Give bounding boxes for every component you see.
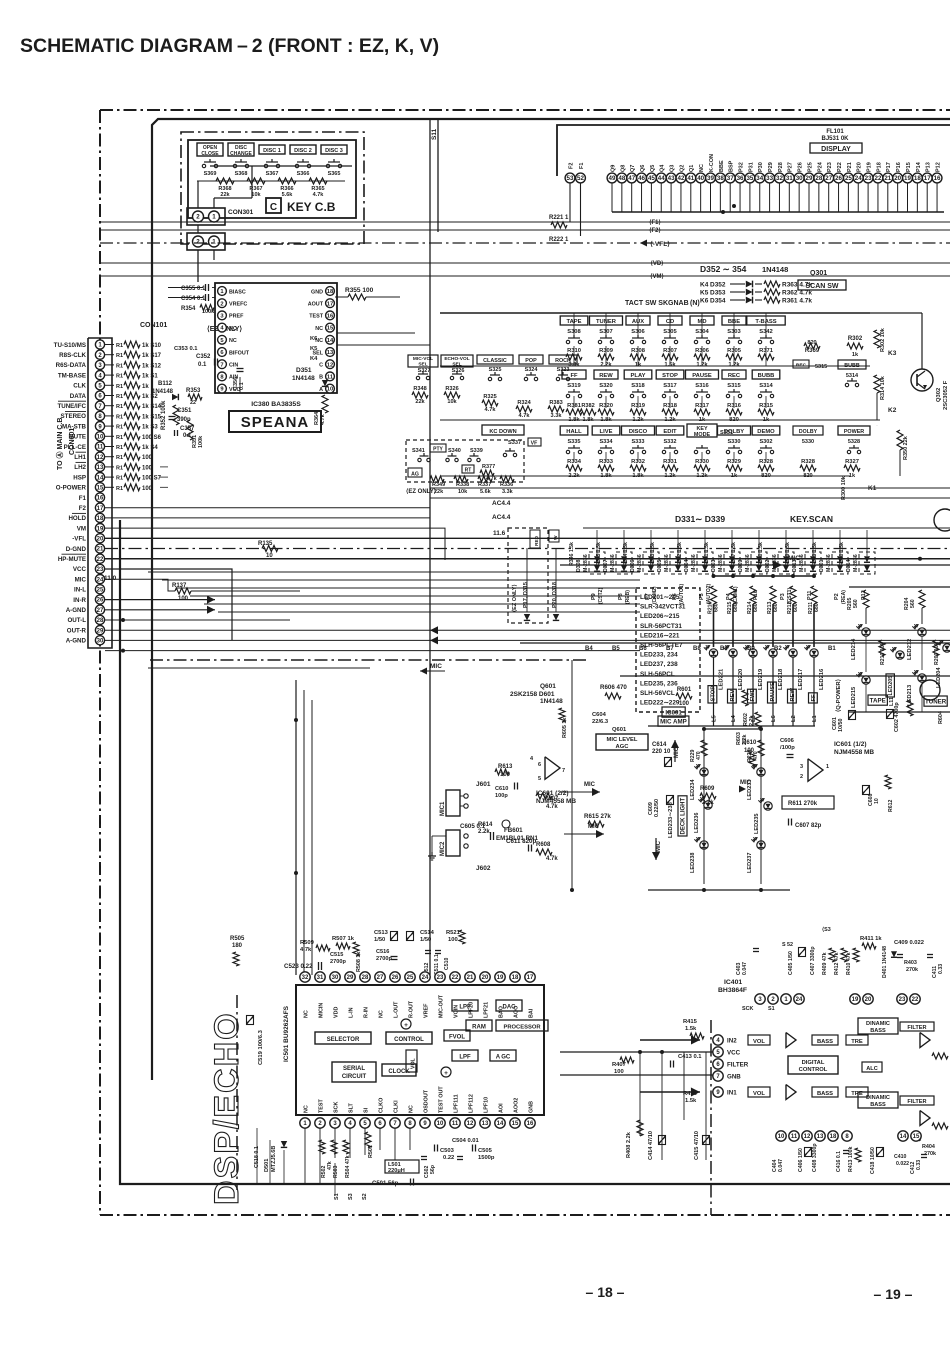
display pin 31 P27 [784,173,794,183]
CON101 pin 7 TUNE/IFC [95,401,104,410]
svg-text:FL101: FL101 [826,129,844,135]
IC501 pin 19 BAO [495,972,505,982]
svg-text:30: 30 [97,638,104,644]
svg-text:LH1: LH1 [74,454,86,461]
svg-text:17: 17 [97,506,104,512]
svg-text:S368: S368 [235,171,248,177]
switch S323 ROCK [549,355,577,364]
svg-text:P13: P13 [926,162,932,172]
switch S314 BUBB [752,370,780,379]
display pin 44 Q4 [656,173,666,183]
switch S305 CD [658,316,682,325]
display pin 39 K-CON [706,173,716,183]
wire pin30 A-GND [105,650,640,652]
svg-text:5: 5 [538,776,541,782]
svg-text:GNB: GNB [529,1101,535,1113]
svg-text:12: 12 [97,455,104,461]
svg-text:C405 1/50: C405 1/50 [788,951,794,975]
svg-text:CHANGE: CHANGE [230,151,252,157]
svg-text:27: 27 [825,175,832,182]
svg-text:1k S17: 1k S17 [142,353,162,359]
svg-text:100: 100 [142,465,153,471]
svg-text:19: 19 [97,526,104,532]
svg-text:R507 1k: R507 1k [332,936,355,942]
svg-text:R361 4.7k: R361 4.7k [782,298,812,305]
CLOCK box [382,1064,416,1076]
svg-text:M-2836: M-2836 [583,554,589,572]
svg-text:10: 10 [437,1121,444,1127]
svg-text:R1: R1 [116,465,123,471]
BASS box L [812,1035,838,1045]
svg-text:R1: R1 [116,384,123,390]
TRE box L [846,1035,868,1045]
display pin 46 Q6 [637,173,647,183]
svg-text:2: 2 [800,774,803,780]
svg-text:MIC-OUT: MIC-OUT [439,994,445,1018]
LED LED221 [709,649,717,657]
svg-text:B5: B5 [612,646,620,652]
IC401 pin 4 IN2 [713,1035,723,1045]
amp triangle L [786,1033,796,1048]
svg-text:P20: P20 [857,162,863,172]
svg-text:11.0: 11.0 [104,575,117,582]
svg-text:39: 39 [707,175,714,182]
matrix vertical rails [573,346,575,366]
wire pin19 VM [105,537,950,539]
switch S368 DISC CHANGE [228,143,254,156]
svg-text:17: 17 [527,975,534,981]
svg-text:C415 47/10: C415 47/10 [694,1131,700,1160]
right rail wires [870,312,922,314]
svg-text:D305: D305 [657,559,663,572]
FVOL box [444,1030,470,1041]
svg-text:10k: 10k [447,399,457,405]
svg-text:1k S12: 1k S12 [142,363,162,369]
resistor R366 5.6k [278,178,296,184]
svg-text:LED206∼215: LED206∼215 [640,613,680,620]
svg-text:R1: R1 [116,394,123,400]
wire pin21 D-GND [105,558,950,560]
svg-text:C514: C514 [420,930,435,936]
svg-text:TEST: TEST [309,314,323,320]
IC501 pin 28 R-IN [360,972,370,982]
svg-text:13: 13 [327,350,334,356]
svg-text:IC501 BU9262AFS: IC501 BU9262AFS [283,1005,290,1062]
switch S366 DISC 2 [290,145,316,154]
LED234 [700,768,708,776]
svg-text:26: 26 [835,175,842,182]
IC501 pin 9 OSDOUT [420,1118,430,1128]
svg-text:1k: 1k [852,352,859,358]
svg-text:HALL: HALL [566,429,582,435]
svg-text:HOLD: HOLD [68,515,86,522]
svg-text:22: 22 [452,975,459,981]
svg-text:1.8k: 1.8k [583,417,595,423]
IC380 pin 8 AIN [218,372,227,381]
switch S317 STOP [656,370,684,379]
svg-text:R340 1.5k: R340 1.5k [758,542,764,566]
svg-text:B4: B4 [585,646,593,652]
svg-text:M-2836: M-2836 [853,554,859,572]
resistor R351 100k vertical [187,420,193,440]
svg-text:OUT-L: OUT-L [67,617,86,624]
svg-text:27: 27 [97,608,104,614]
resistor R115 1k S2 [105,395,114,397]
svg-text:C406 1/50: C406 1/50 [798,1148,804,1172]
CON101 pin 19 VM [95,524,104,533]
svg-text:TU-S10/MS: TU-S10/MS [54,342,86,349]
CON101 pin 13 LH2 [95,462,104,471]
svg-text:22: 22 [190,400,196,406]
svg-text:36: 36 [737,175,744,182]
switch S342 T-BASS [747,316,785,325]
svg-text:0.022: 0.022 [896,1161,909,1167]
svg-text:R611 270k: R611 270k [788,801,818,807]
wires IC401 verticals [639,1052,641,1136]
svg-text:BASS: BASS [817,1091,833,1097]
svg-text:LED234: LED234 [690,779,696,800]
IC501 pin 1 NC [300,1118,310,1128]
svg-text:SCK: SCK [334,1102,340,1113]
LED LED220 [729,649,737,657]
LED LED217 [789,649,797,657]
svg-text:100: 100 [614,1069,624,1075]
IC401 pins 19 20 [850,994,860,1004]
svg-text:C: C [319,363,323,369]
svg-text:R1: R1 [116,374,123,380]
IC501 pin 26 L-OUT [390,972,400,982]
svg-text:BIFOUT: BIFOUT [229,350,250,356]
svg-text:R504 47k: R504 47k [345,1155,351,1178]
svg-text:5.6k: 5.6k [480,489,492,495]
svg-text:820: 820 [807,340,816,346]
svg-text:S319: S319 [567,383,581,389]
PROCESSOR box [496,1020,548,1031]
svg-text:C516: C516 [376,949,389,955]
svg-text:R604: R604 [938,711,944,724]
svg-text:SEL: SEL [418,362,427,368]
svg-text:52: 52 [577,175,584,182]
svg-text:IC601: IC601 [665,709,682,716]
svg-text:REC: REC [728,373,741,379]
svg-text:100k: 100k [202,309,215,315]
svg-text:R1: R1 [116,435,123,441]
svg-text:LED222∼229: LED222∼229 [640,700,680,707]
svg-text:LED205: LED205 [888,676,894,696]
svg-text:1N4148: 1N4148 [540,698,563,705]
svg-text:Q2: Q2 [679,165,685,172]
wire VM line [100,275,950,277]
svg-text:C604: C604 [592,712,607,718]
svg-text:25: 25 [845,175,852,182]
svg-text:TUNE/IFC: TUNE/IFC [57,403,86,410]
display pin 16 P12 [932,173,942,183]
CON101 pin 11 PLL-CE [95,442,104,451]
resistor R612 vertical [885,775,891,789]
IC380 pin 14 NC [326,335,335,344]
svg-text:820: 820 [803,473,812,479]
svg-text:R6S-DATA: R6S-DATA [56,362,87,369]
FILTER box bottom [900,1096,934,1105]
svg-text:J602: J602 [476,865,491,872]
svg-text:12: 12 [804,1134,811,1140]
svg-text:DISC 3: DISC 3 [325,148,343,154]
svg-text:16: 16 [934,175,941,182]
svg-text:L-IN: L-IN [349,1007,355,1018]
svg-text:BIASC: BIASC [229,289,246,295]
transistor Q302 [911,369,933,391]
svg-text:R350 22k: R350 22k [903,435,909,460]
IC501 pin 30 VDD [330,972,340,982]
display pin 45 Q5 [647,173,657,183]
svg-text:R339 1.5k: R339 1.5k [812,542,818,566]
svg-text:⟨VD⟩: ⟨VD⟩ [650,260,663,267]
svg-text:KEY C.B: KEY C.B [287,200,336,214]
CON101 pin 27 A-GND [95,605,104,614]
svg-text:35: 35 [746,175,753,182]
CON101 pin 15 O-POWER [95,483,104,492]
svg-text:R325: R325 [483,394,496,400]
IC380 pin 16 TEST [326,311,335,320]
SPEANA boxed label [229,411,321,432]
switch S330 DOLBY [793,426,823,435]
switch S330 DOLBY [718,426,751,435]
svg-text:220μH: 220μH [388,1168,405,1174]
switch KC DOWN S337 [482,425,524,435]
led group rails [849,586,950,588]
boxed label PAUSE [768,682,777,703]
svg-text:5330: 5330 [802,439,814,445]
svg-text:R505: R505 [230,936,245,942]
KEY C.B outer dash-dot box [181,132,364,244]
deck light feed [761,728,838,730]
resistor R508 1k vertical [353,942,359,956]
svg-text:18: 18 [512,975,519,981]
svg-text:2700p: 2700p [330,959,346,965]
svg-text:K2: K2 [888,407,897,414]
IC501 pin 23 MIC-OUT [435,972,445,982]
C518 leads [256,1128,258,1184]
CON101 pin 25 IN-L [95,585,104,594]
LED238 [700,841,708,849]
svg-text:C519 100/6.3: C519 100/6.3 [258,1029,264,1065]
svg-text:R377: R377 [482,464,495,470]
display pin 49 Q9 [607,173,617,183]
LED rail top [713,575,815,577]
svg-text:SLH-56PCTE7: SLH-56PCTE7 [640,642,683,649]
svg-text:12: 12 [467,1121,474,1127]
svg-text:M-2836: M-2836 [637,554,643,572]
svg-text:STEREO: STEREO [61,413,87,420]
svg-text:100: 100 [448,937,458,943]
display connector frame [557,125,950,176]
svg-text:HP-MUTE: HP-MUTE [58,556,86,563]
svg-text:D352 ∼ 354: D352 ∼ 354 [700,264,747,274]
LED205 [896,651,904,659]
svg-text:R413 100k: R413 100k [848,1147,854,1172]
IC501 pin 15 AOO2 [510,1118,520,1128]
wire S11 vertical [429,119,431,975]
svg-text:S 52: S 52 [782,942,793,948]
DIGITAL CONTROL box [788,1056,838,1074]
svg-text:6: 6 [538,762,541,768]
svg-text:CLOSE: CLOSE [201,151,219,157]
switch S315 REC [793,360,809,368]
svg-text:C: C [270,202,277,213]
svg-text:D352: D352 [710,282,726,289]
svg-text:21: 21 [467,975,474,981]
svg-text:20: 20 [894,175,901,182]
svg-text:0.047: 0.047 [742,962,748,975]
boxed label FWD [748,689,757,703]
svg-text:MTZJ5.6B: MTZJ5.6B [271,1146,277,1172]
svg-text:IC380 BA3835S: IC380 BA3835S [251,401,301,408]
svg-text:TEST OUT: TEST OUT [439,1086,445,1113]
svg-text:10: 10 [874,798,880,804]
svg-text:C413 0.1: C413 0.1 [678,1054,702,1060]
svg-text:40: 40 [697,175,704,182]
svg-text:11: 11 [452,1121,459,1127]
svg-text:OUT-R: OUT-R [67,627,87,634]
svg-text:680: 680 [753,603,759,612]
svg-text:DAC: DAC [503,1005,517,1011]
svg-text:24: 24 [855,175,862,182]
svg-text:2SK2158 D601: 2SK2158 D601 [510,691,555,698]
svg-text:20: 20 [97,536,104,542]
svg-text:PREF: PREF [229,314,244,320]
switch S307 TUNER [590,316,623,325]
wire pin28 OUT-L arrow [430,626,438,634]
CON101 pin 10 MUTE [95,432,104,441]
connector CON101 body [88,338,112,648]
LED LED219 [749,649,757,657]
svg-text:22/6.3: 22/6.3 [592,719,609,725]
label C KEY C.B [266,198,281,213]
svg-text:FVOL: FVOL [449,1035,465,1041]
svg-text:1N4148: 1N4148 [292,375,315,382]
EZ ONLY dashed box P17 [508,528,548,623]
svg-text:22k: 22k [415,399,425,405]
svg-text:C606: C606 [780,738,795,744]
switch S365 DISC 3 [321,145,347,154]
svg-text:C523 0.22: C523 0.22 [284,963,313,970]
svg-text:2.2k: 2.2k [702,800,714,806]
svg-text:4.7k: 4.7k [320,413,326,425]
svg-text:10: 10 [97,434,104,440]
svg-text:0.22/50: 0.22/50 [654,799,660,817]
svg-text:LED217: LED217 [798,669,804,690]
svg-text:1k: 1k [849,473,856,479]
svg-text:MIC AMP: MIC AMP [660,718,687,725]
svg-text:AOI: AOI [499,1103,505,1113]
svg-text:AGC: AGC [616,744,630,750]
svg-text:47: 47 [628,175,635,182]
IC601 MIC AMP boxed [662,707,685,717]
resistor R300 10k vertical [876,424,878,426]
IC501 pin 17 BAI [525,972,535,982]
resistor R112 1k S12 [105,364,114,366]
svg-text:0.33: 0.33 [938,964,944,974]
display pin 23 P19 [863,173,873,183]
svg-text:1: 1 [212,239,216,246]
CON101 pin 9 MA-STB [95,422,104,431]
svg-text:10: 10 [327,387,333,393]
diode D315 [524,614,530,620]
svg-text:K5: K5 [700,290,709,297]
svg-text:Q3: Q3 [670,165,676,172]
svg-text:KEY.SCAN: KEY.SCAN [790,514,833,524]
svg-text:S330: S330 [727,439,740,445]
svg-text:R343 1.5k: R343 1.5k [650,542,656,566]
svg-text:P19: P19 [867,162,873,172]
switch S308 TAPE [560,316,588,325]
ALC box [862,1062,882,1072]
svg-text:Q9: Q9 [610,165,616,172]
svg-text:R1: R1 [116,486,123,492]
svg-text:A-GND: A-GND [66,638,87,645]
svg-text:37: 37 [727,175,734,182]
svg-text:ECHO-VOL: ECHO-VOL [444,356,469,362]
svg-text:BH3864F: BH3864F [718,987,747,994]
wire speana out [337,344,430,346]
svg-text:23: 23 [97,567,104,573]
display pin 17 P13 [922,173,932,183]
svg-text:-VFL: -VFL [72,536,86,543]
CON101 pin 4 TM-BASE [95,371,104,380]
BASS box R [812,1087,838,1097]
svg-text:R411 1k: R411 1k [860,936,882,942]
svg-text:HSP: HSP [73,474,86,481]
wire pin26 IN-R arrow [207,606,215,614]
boxed label STOP [708,686,717,703]
svg-text:C351: C351 [177,408,192,414]
svg-text:11: 11 [327,374,334,380]
svg-text:56p: 56p [430,1165,436,1174]
svg-text:18: 18 [97,516,104,522]
svg-text:22: 22 [912,997,919,1003]
svg-text:SPEANA: SPEANA [241,414,310,431]
display pin 36 P32 [735,173,745,183]
svg-text:R614: R614 [478,822,493,828]
out resistor bottom [932,1123,948,1129]
svg-text:D302: D302 [765,559,771,572]
svg-text:1k S14: 1k S14 [142,404,162,410]
svg-text:SLR-342VCT31: SLR-342VCT31 [640,604,686,611]
svg-text:MIC2: MIC2 [440,841,446,856]
IC380 pin 15 NC [326,323,335,332]
svg-text:1: 1 [212,214,216,221]
svg-text:45: 45 [648,175,655,182]
svg-text:S317: S317 [663,383,677,389]
svg-text:S339: S339 [470,448,483,454]
svg-text:R1: R1 [116,445,123,451]
wire pin20 -VFL dash [105,548,950,550]
svg-text:CLKO: CLKO [379,1098,385,1113]
svg-text:ALC: ALC [866,1066,878,1072]
svg-text:MIC1: MIC1 [440,801,446,816]
svg-text:FILTER: FILTER [907,1025,926,1031]
svg-text:R354: R354 [181,306,196,312]
svg-text:VOL: VOL [753,1039,765,1045]
switch S328 POWER [838,426,870,435]
IC380 pin 12 C [326,360,335,369]
CON101 pin 12 LH1 [95,452,104,461]
svg-text:4.7k: 4.7k [300,947,312,953]
svg-text:R-OUT: R-OUT [409,1000,415,1018]
resistor R122 100 [105,466,114,468]
svg-text:2700p: 2700p [376,956,392,962]
svg-text:D501: D501 [264,1159,270,1172]
